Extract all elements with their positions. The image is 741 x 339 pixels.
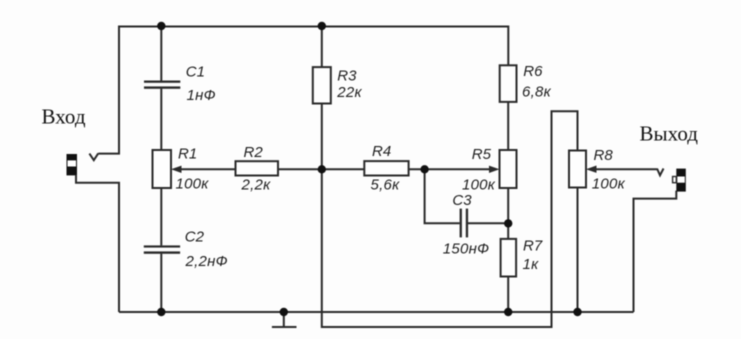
resistor R6 bbox=[500, 63, 552, 102]
resistor R4 bbox=[364, 143, 408, 193]
ground bbox=[272, 312, 297, 327]
svg-text:Вход: Вход bbox=[42, 105, 86, 129]
node: bottom rail / R8 junction bbox=[573, 308, 581, 316]
svg-text:22к: 22к bbox=[336, 84, 362, 101]
wire: output jack sleeve down to bottom rail bbox=[634, 191, 677, 312]
wire: C1 bottom plate to R1 top bbox=[160, 89, 162, 150]
node: bottom rail / C2 junction bbox=[157, 308, 165, 316]
resistor R3 bbox=[313, 67, 363, 103]
svg-text:6,8к: 6,8к bbox=[522, 83, 552, 100]
wire: node B down and right to C3 left plate bbox=[425, 168, 460, 223]
wire: top rail down to R6 top bbox=[507, 26, 509, 66]
output jack contact hook bbox=[657, 169, 664, 176]
wire: top rail to R3 top bbox=[321, 27, 323, 68]
svg-text:2,2к: 2,2к bbox=[241, 177, 272, 194]
input jack contact hook bbox=[89, 153, 98, 160]
svg-text:C3: C3 bbox=[452, 192, 472, 209]
wire: input tip contact up to top rail bbox=[98, 27, 119, 154]
wire: R6 bottom to R5 top bbox=[507, 102, 509, 150]
svg-text:R8: R8 bbox=[594, 147, 614, 164]
svg-text:5,6к: 5,6к bbox=[371, 177, 401, 194]
potentiometer R8 bbox=[569, 147, 657, 193]
wire: R2 through node A to R4 bbox=[278, 168, 364, 170]
capacitor C3 bbox=[443, 192, 489, 257]
svg-text:1к: 1к bbox=[523, 256, 540, 273]
wire: R7 bottom to bottom rail bbox=[507, 277, 509, 313]
node B: mid line / C3 branch junction bbox=[420, 165, 428, 173]
potentiometer R1 bbox=[153, 146, 236, 193]
node: top rail / R3 junction bbox=[318, 22, 326, 30]
wire: top rail to C1 top plate bbox=[160, 27, 162, 81]
wire: R1 bottom to C2 top plate bbox=[160, 188, 162, 245]
svg-text:R5: R5 bbox=[472, 146, 492, 163]
wire: top supply rail bbox=[118, 26, 508, 28]
svg-text:R1: R1 bbox=[178, 146, 197, 163]
resistor R7 bbox=[501, 238, 543, 277]
svg-text:R6: R6 bbox=[523, 63, 543, 80]
svg-text:R3: R3 bbox=[337, 68, 357, 85]
svg-text:C1: C1 bbox=[186, 64, 205, 81]
svg-text:1нФ: 1нФ bbox=[187, 87, 216, 104]
wire: C2 bottom plate to bottom rail bbox=[160, 254, 162, 312]
output jack plug bbox=[673, 169, 686, 192]
node: top rail / C1 junction bbox=[157, 22, 165, 30]
svg-text:R4: R4 bbox=[372, 143, 391, 160]
wire: feedback run from node A down, across and up to R8 top bbox=[322, 111, 578, 327]
svg-text:100к: 100к bbox=[592, 176, 626, 193]
wire: R3 bottom to node A bbox=[321, 104, 323, 170]
wire: R5 bottom to node C bbox=[507, 188, 509, 223]
svg-text:100к: 100к bbox=[176, 176, 210, 193]
wire: bottom rail bbox=[119, 311, 634, 313]
resistor R2 bbox=[236, 144, 279, 194]
wire: C3 right plate to node C bbox=[468, 222, 508, 224]
wire: R8 bottom to bottom rail bbox=[577, 188, 579, 313]
svg-text:100к: 100к bbox=[462, 177, 496, 194]
wire: node C to R7 top bbox=[507, 223, 509, 239]
svg-text:Выход: Выход bbox=[640, 121, 699, 145]
node C: R5 / C3 / R7 junction bbox=[504, 219, 512, 227]
potentiometer R5 bbox=[425, 146, 517, 193]
node: bottom rail / ground junction bbox=[280, 308, 288, 316]
svg-text:R7: R7 bbox=[523, 238, 543, 255]
capacitor C1 bbox=[144, 64, 216, 104]
capacitor C2 bbox=[144, 228, 228, 270]
input jack plug bbox=[67, 154, 78, 175]
node A: mid line / R3 / feedback junction bbox=[318, 165, 326, 173]
wire: R4 to node B bbox=[409, 168, 425, 170]
svg-text:150нФ: 150нФ bbox=[443, 240, 489, 257]
svg-text:C2: C2 bbox=[185, 228, 205, 245]
wire: input jack sleeve to bottom rail bbox=[76, 175, 119, 312]
svg-text:R2: R2 bbox=[244, 144, 264, 161]
svg-text:2,2нФ: 2,2нФ bbox=[185, 253, 228, 270]
node: bottom rail / R7 junction bbox=[504, 308, 512, 316]
